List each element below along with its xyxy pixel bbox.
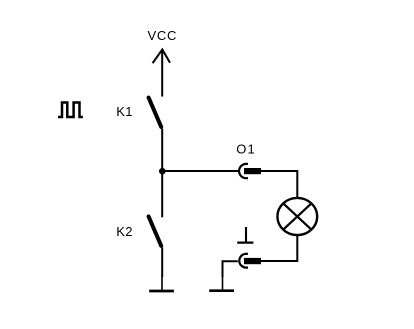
wire O1 to lamp xyxy=(261,171,297,198)
wire node to O1 xyxy=(162,170,240,172)
switch K2 blade xyxy=(149,217,162,246)
GND terminal socket arc xyxy=(239,254,248,268)
ground symbol left stem xyxy=(161,277,163,292)
svg-text:K2: K2 xyxy=(116,224,133,239)
wire node to K2 xyxy=(161,172,163,217)
svg-text:VCC: VCC xyxy=(148,28,178,43)
svg-text:K1: K1 xyxy=(116,104,133,119)
lamp H1 cross xyxy=(283,203,312,230)
lamp H1 body xyxy=(277,198,317,235)
node junction dot xyxy=(159,168,166,175)
VCC power arrow xyxy=(153,50,170,97)
ground symbol right bar xyxy=(209,289,234,292)
pulse generator icon xyxy=(58,103,83,118)
terminal O1 socket arc xyxy=(239,164,248,178)
ground symbol left bar xyxy=(149,290,174,293)
wire K2 to ground xyxy=(161,248,163,278)
GND terminal label symbol xyxy=(237,227,253,243)
GND terminal pin bar xyxy=(244,258,261,264)
wire K1 to node xyxy=(161,129,163,173)
terminal O1 pin bar xyxy=(244,168,261,174)
switch K1 blade xyxy=(149,98,162,127)
svg-text:O1: O1 xyxy=(236,142,256,157)
ground symbol right stem xyxy=(222,277,224,291)
wire lamp to GND terminal xyxy=(261,236,297,262)
wire GND terminal to ground xyxy=(223,261,238,277)
